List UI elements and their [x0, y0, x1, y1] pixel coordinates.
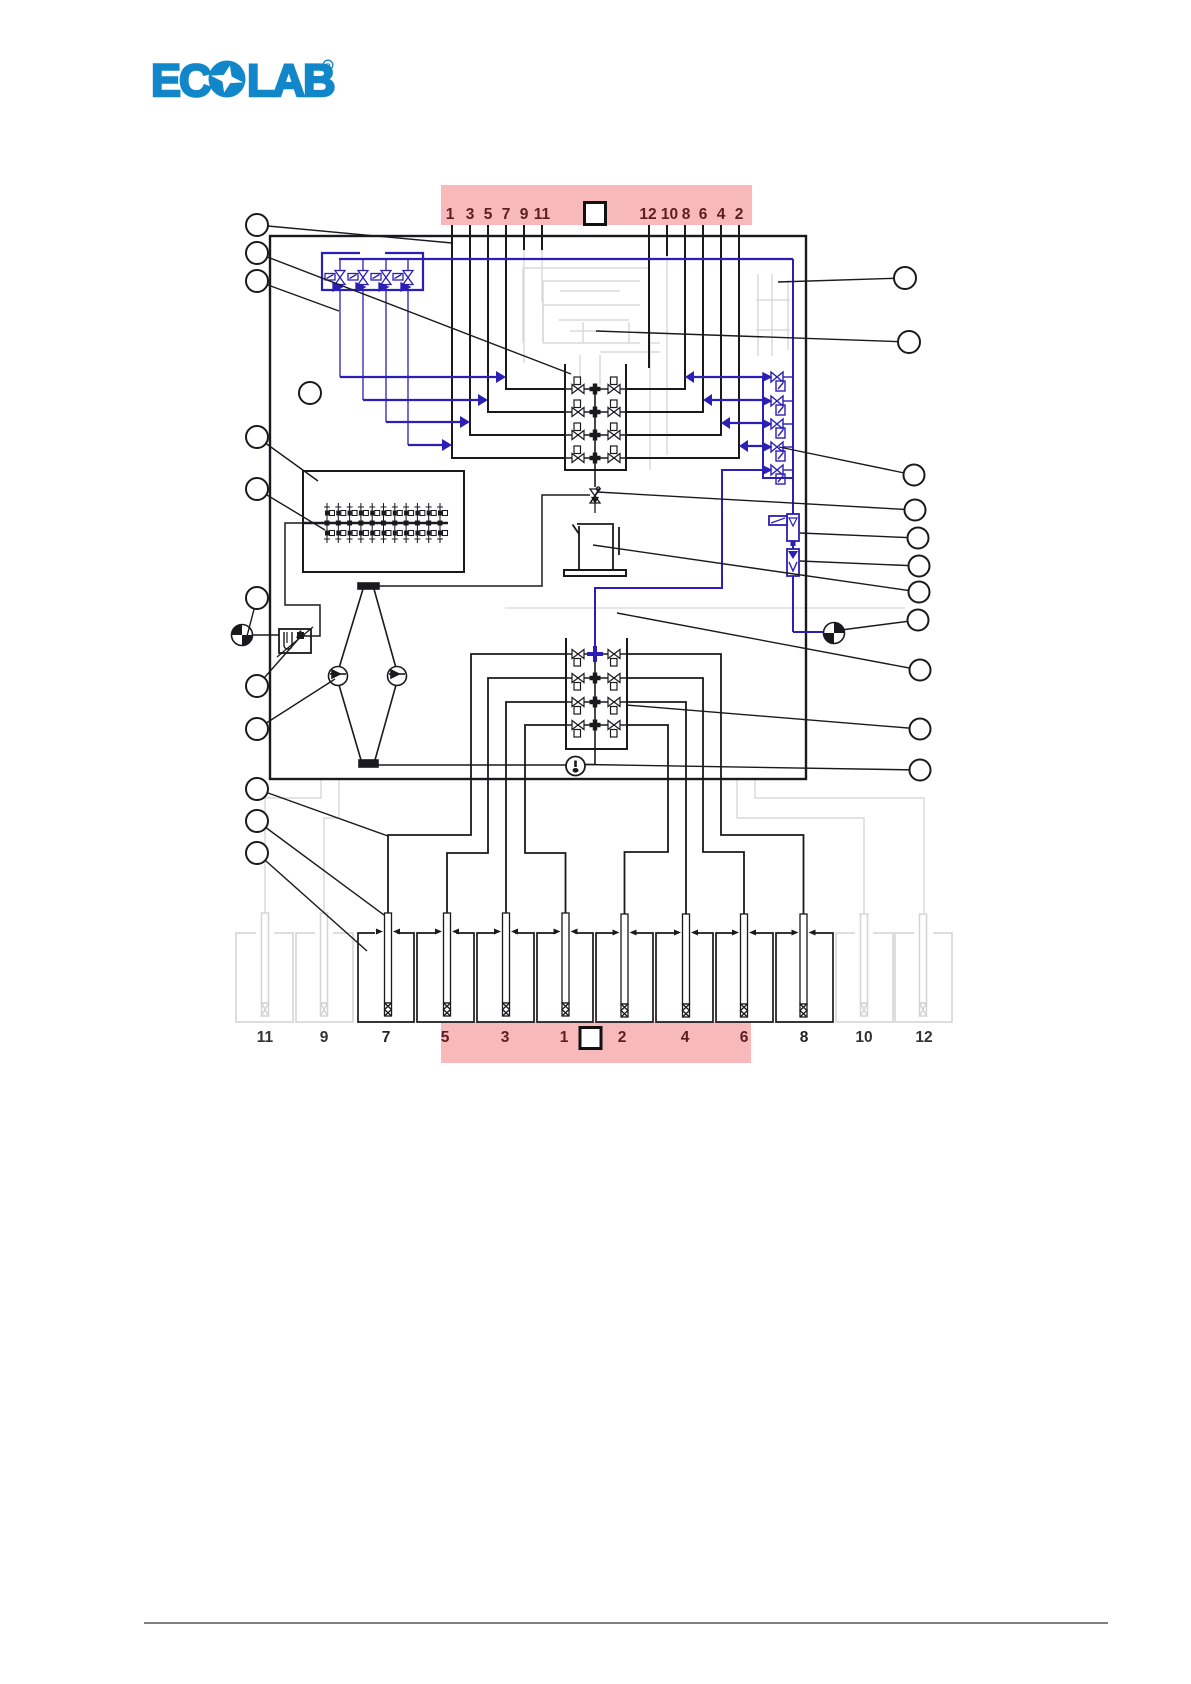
blue junction node lower block row1	[587, 646, 603, 662]
svg-text:2: 2	[735, 206, 744, 223]
canister 2	[596, 933, 653, 1022]
svg-text:8: 8	[800, 1029, 809, 1046]
relay mini valves	[324, 503, 335, 543]
bottom pink banner	[441, 1022, 751, 1063]
blue air line to line 7	[340, 376, 497, 378]
svg-text:12: 12	[639, 206, 656, 223]
ghost mid horizontal	[505, 607, 905, 609]
right bank valve row2	[763, 396, 793, 415]
pressure regulator with gauge	[769, 514, 799, 546]
footer rule	[144, 1622, 1108, 1624]
right valve bank bus	[763, 259, 793, 632]
ghost step lines to canister 11	[265, 780, 321, 913]
pump P1	[329, 667, 348, 686]
suction line to canister 7	[388, 654, 566, 913]
top banner white square	[585, 203, 606, 225]
blue air line from line 2	[748, 445, 763, 447]
svg-text:11: 11	[534, 206, 551, 223]
float switch box	[277, 627, 313, 657]
dosing line 1	[452, 225, 565, 458]
ghost step lines to canister 9	[324, 780, 339, 913]
solenoid valve Y7	[325, 259, 345, 377]
suction line to canister 3	[506, 702, 566, 913]
top banner numbers 1 3 5 7 9 11 / 12 10 8 6 4 2	[446, 206, 744, 223]
bottom banner white square	[580, 1028, 601, 1049]
blue air line from line 8 to right valve bank	[694, 376, 763, 378]
dosing line 6	[627, 225, 703, 412]
ghost canister 10	[836, 914, 893, 1022]
callout circles right	[894, 267, 931, 781]
upper block center manifold	[594, 389, 596, 487]
suction line to canister 1	[525, 725, 566, 913]
dosing line 5	[488, 225, 565, 412]
water CG inlet mark	[232, 625, 253, 646]
leader 10: lance top	[257, 821, 384, 915]
upper block valves (8)	[572, 377, 620, 463]
suction lances (8)	[376, 913, 400, 1016]
dosing line 12	[648, 225, 650, 368]
svg-text:12: 12	[915, 1029, 932, 1046]
leader 4: relay box	[257, 437, 318, 481]
dosing line 3	[470, 225, 565, 435]
svg-text:3: 3	[501, 1029, 510, 1046]
dosing line 10 stub	[666, 225, 668, 256]
canister bodies (8)	[358, 933, 833, 1022]
svg-text:1: 1	[446, 206, 455, 223]
diaphragm pump assembly	[339, 583, 396, 767]
blue air line to line 5	[363, 399, 479, 401]
blue air line from line 4	[730, 422, 763, 424]
measuring beaker	[564, 524, 626, 576]
dosing line 9 stub	[523, 225, 525, 250]
dosing line 8	[627, 225, 685, 389]
svg-text:11: 11	[257, 1029, 274, 1046]
leader r9: blue mixing line	[617, 613, 920, 670]
leader r4: sample relief valve	[597, 492, 915, 510]
lower block junction nodes	[590, 673, 601, 731]
svg-text:4: 4	[717, 206, 726, 223]
dosing line 7	[506, 225, 565, 389]
ghost line 11 continuation	[541, 250, 543, 302]
Ecolab logo	[151, 55, 334, 106]
canister 7	[358, 933, 414, 1022]
canister 6	[716, 933, 773, 1022]
main cabinet rectangle	[270, 236, 806, 779]
lower block center manifold	[594, 654, 596, 765]
canister 5	[417, 933, 474, 1022]
blue air line from line 6	[712, 399, 763, 401]
canister 8	[776, 933, 833, 1022]
leader 11: canister 7	[257, 853, 367, 951]
ghost canister 9	[296, 913, 353, 1022]
leader 2: upper valve block	[257, 253, 571, 374]
blue water inlet line to CG mark	[793, 631, 824, 633]
svg-text:4: 4	[681, 1029, 690, 1046]
ghost underlay drawing (faded background schematic)	[265, 250, 924, 913]
right bank valve row4	[763, 442, 793, 461]
suction line to canister 2	[625, 725, 669, 914]
ghost canister 12	[895, 914, 952, 1022]
leader r1: blue supply corner	[778, 278, 905, 282]
svg-text:8: 8	[682, 206, 691, 223]
water line to float switch	[252, 634, 279, 636]
leader r5: pressure regulator	[800, 533, 918, 538]
svg-text:1: 1	[560, 1029, 569, 1046]
pressure relief valve	[787, 549, 799, 576]
svg-text:10: 10	[661, 206, 678, 223]
leader r3: right bank valve	[779, 447, 914, 475]
relay manifold box	[303, 471, 464, 572]
svg-text:7: 7	[382, 1029, 391, 1046]
ghost step lines to canister 12	[737, 780, 864, 913]
leader r7: beaker	[593, 545, 919, 592]
leader 7: float switch	[257, 635, 302, 686]
suction line to canister 4	[627, 702, 686, 914]
leader r6: relief valve	[800, 561, 919, 566]
water CG mark right	[824, 623, 845, 644]
svg-text:5: 5	[441, 1029, 450, 1046]
upper valve block manifold rails	[565, 364, 626, 470]
blue line valve5 to mixing block	[595, 470, 763, 647]
canister labels row	[257, 1029, 933, 1046]
ghost washer outline	[523, 268, 648, 343]
suction line to canister 8	[627, 654, 804, 914]
ghost washer inner marks	[560, 291, 660, 385]
ghost box right of upper valve block	[543, 300, 660, 470]
right bank valve row3	[763, 419, 793, 438]
svg-text:5: 5	[484, 206, 493, 223]
suction line to canister 6	[627, 678, 744, 914]
ghost step lines to canister 10	[755, 780, 924, 913]
leader 8: pump	[257, 679, 335, 729]
upper block junction nodes	[590, 384, 601, 464]
svg-text:R: R	[325, 62, 331, 71]
right bank valve row1	[763, 372, 793, 391]
lower block row lines	[566, 654, 627, 725]
svg-text:2: 2	[618, 1029, 627, 1046]
svg-text:9: 9	[520, 206, 529, 223]
ghost line 10 continuation	[666, 255, 668, 455]
leader r10: lower block rail	[626, 705, 920, 729]
dosing line 11 stub	[541, 225, 543, 250]
svg-text:10: 10	[855, 1029, 872, 1046]
sample relief valve under upper block	[590, 487, 600, 513]
water line float switch to relay box	[285, 523, 320, 636]
leader 1: dosing line 1 top	[257, 225, 452, 243]
solenoid valve Y3	[371, 259, 391, 422]
mixed product line	[378, 764, 595, 767]
svg-text:7: 7	[502, 206, 511, 223]
thermometer	[566, 757, 585, 776]
ghost line 9 continuation	[523, 250, 525, 363]
svg-text:9: 9	[320, 1029, 329, 1046]
leader r11: thermometer line	[586, 765, 920, 771]
pump P2	[388, 667, 407, 686]
solenoid valve Y1	[393, 259, 413, 445]
blue solenoid box	[322, 253, 423, 290]
canister 3	[477, 933, 534, 1022]
suction line to canister 5	[447, 678, 566, 913]
canister 1	[537, 933, 593, 1022]
solenoid valve Y5	[348, 259, 368, 400]
leader 6: water CG mark	[247, 598, 257, 636]
leader 9: suction line elbow	[257, 789, 388, 836]
lower valve block rails	[566, 638, 627, 749]
upper block row lines	[565, 389, 626, 435]
sample line to relief valve	[379, 495, 590, 586]
relay manifold bus	[304, 522, 448, 525]
svg-text:3: 3	[466, 206, 475, 223]
ghost canister 11	[236, 913, 293, 1022]
lower block valves (8)	[572, 650, 620, 738]
blue air supply line	[339, 258, 793, 260]
svg-text:6: 6	[699, 206, 708, 223]
svg-text:6: 6	[740, 1029, 749, 1046]
dosing line 4	[627, 225, 721, 435]
leader 5: relay mini valves	[257, 489, 325, 530]
dosing line 2	[627, 225, 739, 458]
top pink banner	[441, 185, 752, 225]
leader 3: blue solenoid box	[257, 281, 339, 311]
canister 4	[656, 933, 713, 1022]
blue air line to line 3	[386, 421, 461, 423]
right bank valve row5	[763, 465, 793, 484]
leader r8: CG mark right	[841, 620, 918, 630]
leader lines	[247, 225, 920, 951]
callout circles left	[246, 214, 321, 864]
blue air line to line 1	[408, 444, 443, 446]
svg-text:EC: EC	[151, 55, 211, 106]
svg-text:LAB: LAB	[247, 55, 334, 106]
ghost right-side cabinet marks	[756, 274, 790, 356]
leader r2: ghost washer	[596, 331, 909, 342]
